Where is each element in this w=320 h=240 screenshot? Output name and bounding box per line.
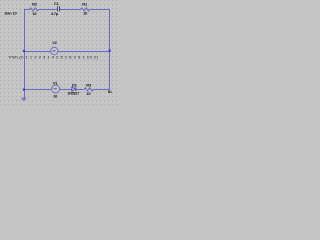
wire: ground stub [24, 90, 26, 98]
svg-text:4.7µ: 4.7µ [51, 11, 59, 16]
svg-text:N1: N1 [108, 90, 112, 94]
wire: bottom rail left of V1 [24, 89, 52, 91]
wire: bottom rail V1 to D1 [60, 89, 72, 91]
node junction middle-left [23, 50, 25, 52]
resistor R3 [83, 88, 94, 91]
svg-text:PWL(0 1 1 2 2 3 1 4 2 5 1 6 2: PWL(0 1 1 2 2 3 1 4 2 5 1 6 2 9 1 10 2) [9, 54, 99, 59]
wire: right vertical rail [109, 9, 111, 90]
diode D1 [72, 87, 76, 91]
capacitor C1 [58, 6, 60, 11]
wire: middle rail right of V2 [58, 51, 110, 53]
wire: bottom rail R3 to right corner [94, 89, 110, 91]
wire: top rail R1 to right corner [90, 9, 110, 11]
svg-text:.tran 10: .tran 10 [4, 10, 18, 15]
resistor R2 [29, 8, 40, 11]
resistor R1 [80, 8, 90, 11]
wire: bottom rail D1 to R3 [76, 89, 83, 91]
voltage source V2 [51, 47, 59, 55]
wire: left vertical rail [24, 9, 26, 90]
background [0, 0, 120, 105]
voltage source V1 [52, 85, 60, 93]
wire: top rail R2 to C1 [40, 9, 58, 11]
wire: top rail left of R2 [24, 9, 29, 11]
node junction bottom-left [23, 88, 25, 90]
node junction middle-right [109, 50, 111, 52]
wire: middle rail left of V2 [24, 51, 51, 53]
wire: top rail C1 to R1 [60, 9, 80, 11]
ground [21, 98, 26, 100]
svg-text:1N5817: 1N5817 [67, 92, 79, 96]
